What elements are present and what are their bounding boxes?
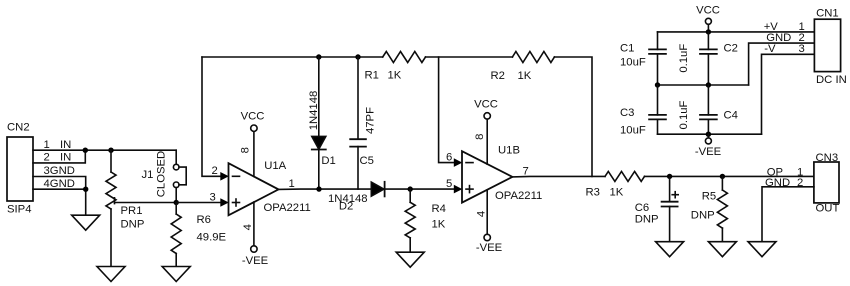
wire CN2 pin2 to pin1 [33, 150, 85, 163]
svg-text:6: 6 [446, 152, 452, 164]
resistor R4 [405, 189, 446, 252]
svg-text:CN2: CN2 [7, 122, 30, 134]
svg-text:8: 8 [240, 147, 252, 153]
CN1 pin 2 label [766, 32, 805, 44]
junction IN to PR1 [108, 148, 113, 153]
svg-text:IN: IN [60, 152, 71, 164]
svg-text:1K: 1K [388, 69, 402, 81]
op-amp U1B [462, 144, 542, 202]
svg-text:5: 5 [446, 178, 452, 190]
svg-text:OUT: OUT [816, 203, 840, 215]
svg-text:J1: J1 [142, 169, 154, 181]
wire R2 to U1B output [554, 57, 592, 176]
ground C6 [656, 242, 684, 257]
svg-text:0.1uF: 0.1uF [678, 100, 690, 129]
svg-text:2: 2 [44, 152, 50, 164]
connector CN2 [7, 122, 33, 216]
svg-text:C6: C6 [635, 202, 649, 214]
svg-text:DNP: DNP [635, 213, 659, 225]
junction VCC [706, 29, 711, 34]
resistor R5 [691, 176, 728, 241]
wire U1A pin2 feedback [202, 57, 220, 176]
capacitor C5 [350, 57, 376, 189]
svg-text:1: 1 [289, 178, 295, 190]
svg-text:8: 8 [474, 134, 486, 140]
svg-text:10uF: 10uF [620, 125, 646, 137]
wire U1A output [279, 188, 372, 190]
junction C5 top [355, 54, 360, 59]
svg-text:-VEE: -VEE [476, 242, 503, 254]
wire U1A pin3 [176, 202, 220, 204]
svg-text:DNP: DNP [121, 219, 145, 231]
svg-text:U1B: U1B [498, 144, 520, 156]
svg-text:4: 4 [475, 211, 487, 217]
svg-text:47PF: 47PF [364, 107, 376, 134]
junction J1 / pin3 net [174, 200, 179, 205]
svg-text:R6: R6 [197, 214, 211, 226]
resistor R3 [586, 171, 645, 198]
svg-text:R5: R5 [702, 190, 716, 202]
diode D2 [328, 182, 385, 213]
svg-text:D2: D2 [339, 201, 353, 213]
-VEE arrow [695, 134, 722, 158]
wire -VEE rail [658, 133, 762, 135]
junction D1 top [316, 54, 321, 59]
op-amp U1A [229, 160, 311, 215]
U1A pin 8 / VCC [240, 111, 265, 177]
svg-text:VCC: VCC [474, 99, 498, 111]
capacitor C4 [678, 85, 738, 134]
svg-text:1: 1 [44, 139, 50, 151]
svg-text:1K: 1K [432, 219, 446, 231]
wire U1B output [512, 175, 605, 178]
svg-text:3: 3 [210, 191, 216, 203]
U1A pin 1 label [289, 178, 295, 190]
connector CN3 [814, 152, 840, 214]
U1B pin 7 label [523, 166, 529, 178]
VCC arrow top [696, 4, 720, 32]
wire R1 to R2 [426, 56, 513, 58]
svg-text:0.1uF: 0.1uF [678, 44, 690, 73]
potentiometer PR1 [106, 150, 144, 266]
svg-text:3GND: 3GND [44, 165, 75, 177]
junction R5 [720, 174, 725, 179]
junction R4 [408, 186, 413, 191]
svg-text:VCC: VCC [696, 4, 720, 16]
svg-text:+V: +V [764, 21, 779, 33]
ground CN3 [748, 242, 776, 257]
svg-text:49.9E: 49.9E [197, 231, 227, 243]
capacitor C2 [678, 32, 738, 85]
junction pins 1-2 [83, 148, 88, 153]
wire CN2 pin4 GND [33, 189, 86, 215]
wire CN3 GND [762, 187, 814, 242]
svg-text:IN: IN [60, 139, 71, 151]
svg-text:C4: C4 [724, 110, 738, 122]
svg-text:C2: C2 [724, 42, 738, 54]
wire U1B pin6 [439, 57, 454, 163]
svg-text:OPA2211: OPA2211 [495, 190, 542, 202]
svg-text:10uF: 10uF [620, 56, 646, 68]
CN2 pin 3 label [44, 165, 75, 177]
svg-text:4: 4 [242, 224, 254, 230]
ground R5 [708, 242, 736, 257]
junction D1 bottom [316, 186, 321, 191]
ground R4 [396, 252, 424, 267]
svg-text:R3: R3 [586, 186, 600, 198]
capacitor C3 [620, 85, 666, 137]
junction pins 3-4 [83, 187, 88, 192]
svg-text:-VEE: -VEE [242, 255, 269, 267]
wire CN1 GND [749, 43, 815, 85]
capacitor C6 [635, 176, 679, 241]
svg-text:2: 2 [212, 165, 218, 177]
wire CN2 pin3 to pin4 [33, 177, 86, 190]
wire CN1 -V [762, 54, 815, 134]
wire R3 to CN3 [645, 175, 814, 177]
CN3 pin 1 label [767, 166, 804, 178]
ground R6 [162, 267, 190, 282]
svg-text:CLOSED: CLOSED [156, 151, 168, 197]
resistor R6 [171, 203, 226, 267]
svg-text:DC IN: DC IN [816, 74, 847, 86]
CN2 pin 1 label [44, 139, 72, 151]
wire mid GND rail [658, 84, 749, 86]
svg-text:OPA2211: OPA2211 [264, 202, 311, 214]
resistor R1 [365, 52, 426, 82]
svg-text:C3: C3 [620, 107, 634, 119]
wire PR1 wiper [115, 202, 177, 204]
wire top rail left [202, 56, 383, 58]
svg-text:SIP4: SIP4 [7, 203, 32, 215]
U1A pin 4 / -VEE [242, 202, 269, 267]
ground PR1 [97, 267, 125, 282]
svg-text:4GND: 4GND [44, 178, 75, 190]
svg-text:-V: -V [764, 43, 776, 55]
wire CN2 pin1 IN net [33, 149, 176, 151]
ground CN2 [72, 215, 100, 230]
wire +V rail [658, 31, 815, 33]
U1B pin 4 / -VEE [475, 190, 502, 254]
svg-text:R4: R4 [432, 203, 446, 215]
diode D1 [308, 57, 336, 189]
CN1 pin 3 label [764, 43, 804, 55]
svg-text:DNP: DNP [691, 209, 715, 221]
svg-text:R1: R1 [365, 69, 379, 81]
U1B pin 8 / VCC [474, 99, 498, 165]
U1B pin 6 label [446, 152, 452, 164]
svg-text:U1A: U1A [264, 160, 286, 172]
junction C6 [667, 174, 672, 179]
U1A pin 3 label [210, 191, 216, 203]
CN1 pin 1 label [764, 21, 805, 33]
resistor R2 [491, 52, 555, 83]
jumper J1 [142, 150, 187, 202]
svg-text:VCC: VCC [241, 111, 265, 123]
svg-text:C5: C5 [360, 155, 374, 167]
CN2 pin 4 label [44, 178, 75, 190]
svg-text:CN1: CN1 [816, 7, 839, 19]
svg-text:PR1: PR1 [121, 205, 143, 217]
U1B pin 5 label [446, 178, 452, 190]
svg-text:1K: 1K [518, 70, 532, 82]
svg-text:C1: C1 [620, 42, 634, 54]
svg-text:R2: R2 [491, 70, 505, 82]
svg-text:3: 3 [799, 43, 805, 55]
CN3 pin 2 label [765, 177, 803, 189]
junction -VEE [706, 132, 711, 137]
CN2 pin 2 label [44, 152, 72, 164]
svg-text:-VEE: -VEE [695, 146, 722, 158]
svg-text:1K: 1K [610, 186, 624, 198]
svg-text:1: 1 [799, 21, 805, 33]
connector CN1 [814, 7, 846, 85]
wire D2 to U1B pin5 [385, 188, 454, 190]
svg-text:1N4148: 1N4148 [308, 91, 320, 131]
svg-text:D1: D1 [321, 155, 335, 167]
U1A pin 2 label [212, 165, 218, 177]
capacitor C1 [620, 32, 666, 85]
